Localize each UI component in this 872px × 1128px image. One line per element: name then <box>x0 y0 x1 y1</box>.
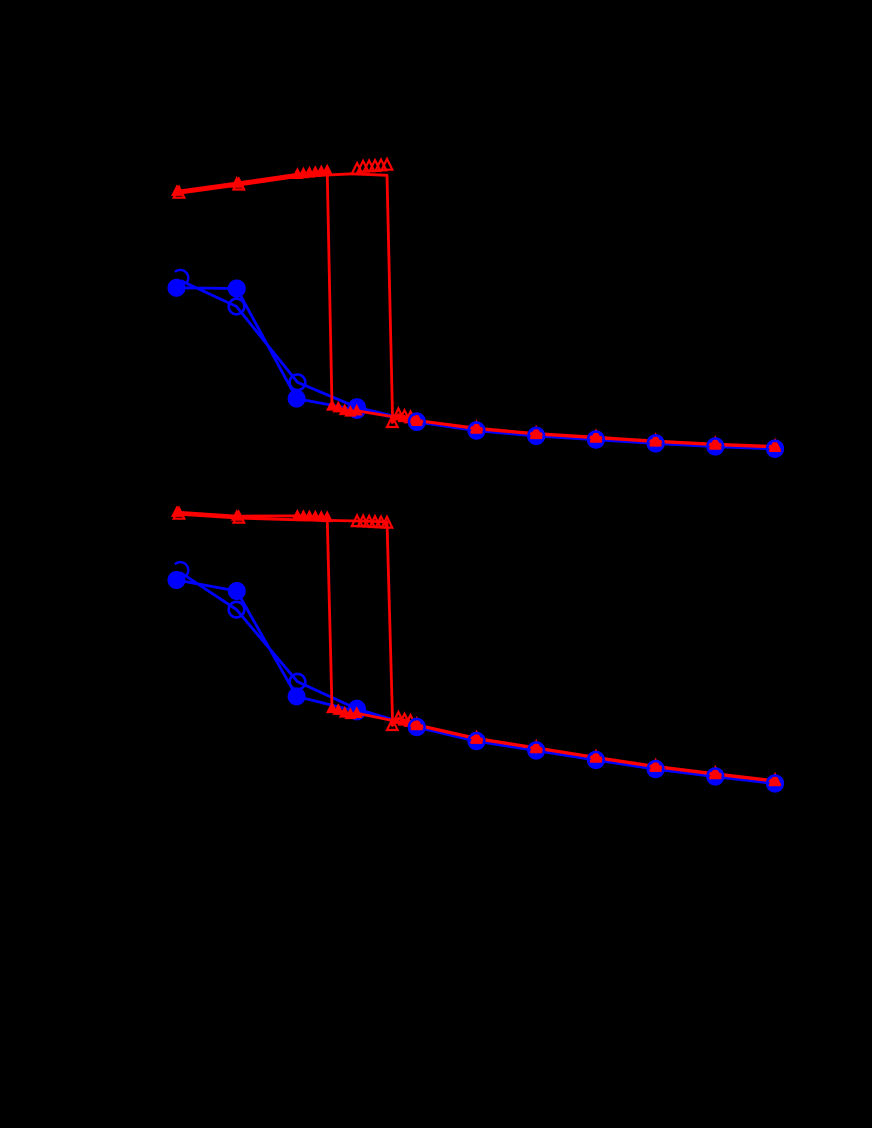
panel 2 red filled-triangle markers <box>171 505 781 786</box>
panel 2 blue filled-circle markers <box>168 571 785 793</box>
panel 2 blue filled-circle series (line) <box>177 580 776 784</box>
panel 1 blue open-circle series (line) <box>181 281 776 449</box>
panel 2 red open-triangle series (line with vertical drop) <box>179 514 775 781</box>
panel 2 red filled-triangle series (line with vertical drop) <box>177 512 775 781</box>
panel 2 blue open-circle markers (left group) <box>229 602 365 717</box>
panel 1 blue open-circle markers (rings on top) <box>409 414 783 457</box>
panel 2 blue open-circle series (line) <box>181 573 776 784</box>
panel 1 red open-triangle markers <box>174 159 781 451</box>
panel 1 blue open-circle markers (left group) <box>229 299 365 415</box>
panel 2 blue open-circle markers (rings on top) <box>409 719 783 791</box>
panel 2 red open-triangle markers <box>174 508 781 785</box>
panel 1 blue filled-circle markers <box>168 279 785 458</box>
panel 1 red filled-triangle markers <box>171 164 781 452</box>
panel 2 blue open-circle first-point arc <box>175 562 188 575</box>
panel 1 blue open-circle first-point arc <box>175 270 188 283</box>
panel 1 blue filled-circle series (line) <box>177 288 776 449</box>
panel 1 red filled-triangle series (line with vertical drop) <box>177 171 775 447</box>
panel 1 red open-triangle series (line with vertical drop) <box>179 174 775 447</box>
